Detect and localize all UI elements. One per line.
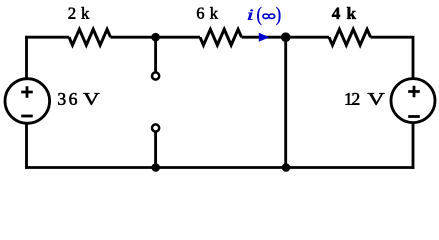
switch bottom terminal (open circle): [152, 124, 159, 131]
V2 plus sign: [408, 86, 420, 98]
wire top segment: R3 to top-right corner: [371, 36, 414, 39]
wire switch branch upper: node A down to switch top terminal: [154, 37, 157, 72]
bottom junction dot under node B: [282, 163, 291, 172]
resistor R1 2 k zigzag: [69, 29, 111, 45]
node A junction dot: [151, 33, 160, 42]
V2 minus sign: [408, 115, 420, 118]
label i(infinity) (blue): [248, 7, 281, 25]
bottom junction dot under switch: [151, 163, 160, 172]
resistor R2 6 k zigzag: [200, 29, 242, 45]
label 2 k: [69, 7, 90, 19]
resistor R3 4 k zigzag: [329, 29, 371, 45]
wire top segment: top-left corner to R1: [25, 36, 69, 39]
wire bottom rail: [25, 166, 414, 169]
wire top segment: node A to R2: [156, 36, 200, 39]
voltage source V1 circle: [5, 79, 50, 124]
V1 minus sign: [21, 115, 33, 118]
label 4 k: [332, 7, 356, 19]
wire left vertical: corner to source V1 top: [25, 36, 28, 80]
label 36 V: [58, 93, 99, 105]
node B junction dot: [281, 32, 291, 42]
wire top segment: R1 to node A: [111, 36, 156, 39]
wire top segment: node B to R3: [286, 36, 329, 39]
label 6 k: [197, 7, 218, 19]
current arrow head (blue): [259, 33, 270, 42]
wire left vertical: source V1 bottom to bottom-left corner: [25, 123, 28, 169]
wire right vertical: source V2 bottom to bottom-right corner: [412, 122, 415, 169]
V1 plus sign: [21, 86, 33, 98]
label 12 V: [346, 93, 385, 105]
wire node B branch: node B down to bottom rail: [284, 37, 287, 167]
wire top segment: R2 to node B (under arrow): [242, 36, 286, 39]
wire switch branch lower: switch bottom terminal to bottom rail: [154, 132, 157, 167]
switch top terminal (open circle): [152, 72, 159, 79]
voltage source V2 circle: [391, 79, 435, 123]
wire right vertical: top-right corner to source V2 top: [412, 36, 415, 79]
